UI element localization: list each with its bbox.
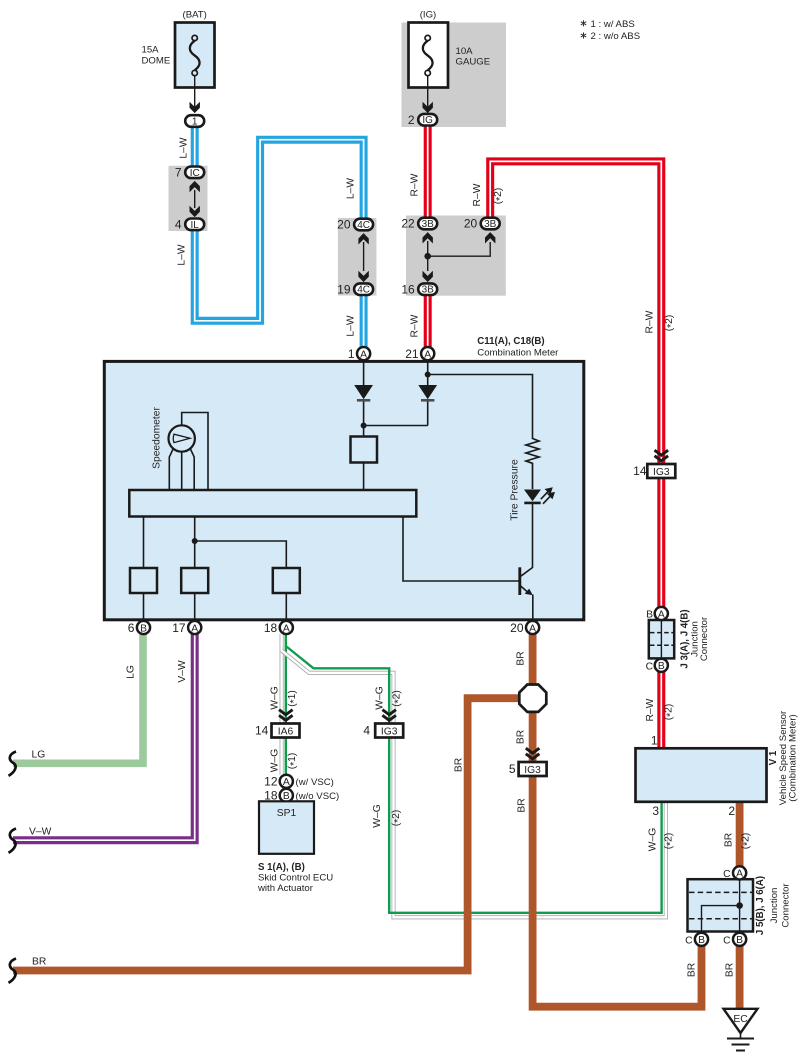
svg-text:V–W: V–W: [177, 660, 188, 683]
arrow into oval 1: [190, 102, 200, 113]
svg-text:J 5(B), J 6(A): J 5(B), J 6(A): [755, 876, 766, 935]
connector oval 19 4C: [354, 283, 373, 295]
svg-text:Speedometer: Speedometer: [152, 407, 163, 469]
svg-text:3: 3: [652, 804, 659, 818]
svg-text:4: 4: [175, 218, 182, 232]
svg-text:L–W: L–W: [346, 178, 357, 199]
resistor tire pressure: [526, 439, 539, 490]
square S3: [273, 568, 300, 593]
svg-text:B: B: [140, 623, 147, 634]
continuation squiggle BR: [9, 959, 17, 983]
transistor Q1: [520, 567, 533, 595]
svg-text:BR: BR: [724, 833, 735, 847]
wire V-W: meter pin 17A down and left to edge: [13, 634, 195, 840]
connector oval 22 3B: [418, 218, 437, 230]
svg-text:A: A: [529, 623, 536, 634]
svg-text:2 : w/o ABS: 2 : w/o ABS: [591, 31, 641, 42]
svg-text:10A: 10A: [456, 46, 474, 57]
svg-text:(w/ VSC): (w/ VSC): [296, 777, 334, 788]
wire: dot branch right to square S3: [195, 541, 287, 568]
junction connector J5 J6 box: [688, 879, 754, 931]
svg-text:Tire Pressure: Tire Pressure: [510, 459, 521, 521]
svg-text:W–G: W–G: [375, 686, 386, 709]
wire: bus bar through dot to square S2: [194, 517, 196, 569]
svg-text:20: 20: [464, 217, 478, 231]
connector box 14 IA6: [272, 724, 300, 738]
continuation squiggle LG: [9, 752, 17, 776]
fuse 10A GAUGE box: [409, 23, 449, 88]
wire: square S3 to pin 18A: [285, 593, 287, 620]
arrow into oval IG: [423, 102, 433, 113]
wire BR: 5 IG3 down, right, up to J5 pin B left: [533, 776, 702, 1007]
chevron arrow above 5 IG3: [526, 748, 540, 759]
svg-text:C11(A), C18(B): C11(A), C18(B): [477, 336, 544, 347]
gray panel around IG fuse: [402, 23, 507, 128]
arrow up below 20 4C: [358, 233, 368, 244]
svg-text:17: 17: [172, 621, 186, 635]
wire BR: V1 pin 2 down to J5 pin A: [736, 751, 744, 868]
pin circle 12 A: [280, 775, 293, 788]
continuation squiggle V-W: [9, 829, 17, 853]
wire: fuse DOME to oval 1: [194, 75, 196, 108]
J3 pin B A: [655, 607, 668, 620]
svg-text:C: C: [646, 662, 654, 673]
svg-text:20: 20: [510, 621, 524, 635]
svg-text:W–G: W–G: [372, 804, 383, 827]
svg-text:(Combination Meter): (Combination Meter): [788, 714, 799, 801]
wire 22 3B to dot: [427, 241, 429, 271]
svg-text:(BAT): (BAT): [183, 10, 207, 21]
J5 pin C A: [733, 866, 746, 879]
svg-text:(IG): (IG): [420, 10, 437, 21]
J3 pin C B: [655, 659, 668, 672]
svg-text:LG: LG: [126, 665, 137, 679]
wire: diode D1 to junction dot and small box: [363, 401, 365, 437]
wire R-W red: fuse oval IG to connector 22 3B: [424, 126, 432, 219]
svg-text:L–W: L–W: [179, 137, 190, 158]
svg-text:3B: 3B: [422, 285, 435, 296]
svg-text:6: 6: [128, 621, 135, 635]
svg-text:1: 1: [348, 347, 355, 361]
svg-text:R–W: R–W: [410, 173, 421, 196]
svg-text:Connector: Connector: [699, 616, 710, 661]
skid control ECU box SP1: [259, 801, 314, 854]
svg-text:Junction: Junction: [769, 888, 780, 924]
svg-text:V–W: V–W: [29, 827, 52, 838]
svg-text:A: A: [736, 869, 743, 880]
svg-text:W–G: W–G: [648, 828, 659, 851]
placeholder layers: [169, 23, 507, 296]
svg-text:4: 4: [363, 724, 370, 738]
wire: small box to bus bar: [363, 463, 365, 491]
wire L-W blue: connector IL down, right, up, right, down to 20 4C: [195, 140, 364, 321]
svg-text:18: 18: [264, 621, 278, 635]
svg-text:R–W: R–W: [645, 310, 656, 333]
svg-text:S 1(A), (B): S 1(A), (B): [258, 862, 305, 873]
svg-text:GAUGE: GAUGE: [456, 57, 491, 68]
svg-text:BR: BR: [725, 963, 736, 977]
junction dot bus to squares: [192, 538, 198, 544]
svg-text:B: B: [736, 935, 743, 946]
octagon junction symbol: [519, 685, 546, 712]
gray panel 4C connector group: [338, 218, 377, 296]
arrow down above 16 3B: [423, 271, 433, 282]
svg-text:IG3: IG3: [524, 765, 541, 776]
chevron arrow above 14 IA6: [279, 710, 293, 721]
svg-text:BR: BR: [687, 963, 698, 977]
connector oval 7 IC: [185, 167, 204, 179]
combination meter box C11(A) C18(B): [104, 361, 584, 619]
wire W-G green line: branch 2 diagonal right down to 4 IG3, down right up to V1 pin 3: [286, 646, 662, 913]
svg-text:A: A: [191, 623, 198, 634]
svg-text:7: 7: [175, 166, 182, 180]
svg-text:BR: BR: [516, 651, 527, 665]
svg-text:20: 20: [337, 218, 351, 232]
wire BR: J5 pin B right down to EC ground: [736, 945, 744, 1010]
svg-text:DOME: DOME: [142, 56, 171, 67]
svg-text:21: 21: [405, 347, 419, 361]
svg-text:19: 19: [337, 282, 351, 296]
svg-text:IC: IC: [190, 168, 200, 179]
svg-text:A: A: [283, 623, 290, 634]
wire: pin 21A to diode D2: [427, 362, 429, 385]
svg-text:BR: BR: [32, 957, 46, 968]
J5 pin C B right: [733, 933, 746, 946]
svg-text:C: C: [723, 869, 731, 880]
svg-text:L–W: L–W: [177, 244, 188, 265]
connector oval 16 3B: [418, 283, 437, 295]
chevron arrow above 14 IG3 red: [655, 450, 669, 461]
wire: pin 1A to diode D1: [363, 362, 365, 385]
meter pin 21 A: [421, 347, 434, 360]
square S2: [181, 568, 208, 593]
svg-text:BR: BR: [516, 730, 527, 744]
arrow down above IL: [190, 206, 200, 217]
svg-text:15A: 15A: [142, 45, 160, 56]
diode D2: [418, 385, 437, 400]
svg-text:3B: 3B: [422, 219, 435, 230]
svg-text:5: 5: [509, 762, 516, 776]
svg-text:Connector: Connector: [781, 883, 792, 928]
wire 4C to 4C: [363, 242, 365, 271]
EC ground symbol: [724, 1009, 758, 1051]
svg-text:W–G: W–G: [270, 749, 281, 772]
connector oval 20 3B: [481, 218, 500, 230]
wire LG: meter pin 6B down and left to edge: [13, 634, 143, 763]
wire: speedometer loop top right: [182, 413, 208, 491]
svg-text:1: 1: [651, 733, 658, 747]
gray panel IC/IL connector group: [169, 166, 208, 231]
svg-text:C: C: [723, 935, 731, 946]
note star 1 w/ ABS: [581, 20, 586, 26]
svg-text:IG3: IG3: [381, 727, 398, 738]
svg-text:L–W: L–W: [346, 315, 357, 336]
arrow up below 22 3B: [423, 232, 433, 243]
speedometer gauge symbol: [169, 425, 195, 451]
wire BR: octagon junction down to 5 IG3: [529, 712, 537, 763]
wire BR: octagon junction left, down, left to edge: [13, 698, 519, 970]
svg-text:(w/o VSC): (w/o VSC): [296, 791, 340, 802]
svg-text:14: 14: [633, 464, 647, 478]
wire W-G green line: pin 18A branch 1 down to 14 IA6 and 12A: [285, 634, 287, 776]
wire: speedometer right lead to bus bar: [190, 449, 194, 491]
svg-text:EC: EC: [733, 1014, 748, 1025]
vehicle speed sensor box V1: [636, 748, 767, 802]
wire: pin 21A branch right to tire pressure resistor: [428, 375, 533, 440]
arrow up below IC: [190, 181, 200, 192]
fuse 15A DOME symbol: [190, 35, 200, 75]
wire: square S1 to pin 6B: [143, 593, 145, 620]
svg-text:2: 2: [728, 804, 735, 818]
small box component above bus bar: [351, 437, 378, 463]
wire dot right up to 20 3B: [428, 242, 491, 256]
svg-text:2: 2: [408, 113, 415, 127]
svg-text:R–W: R–W: [645, 698, 656, 721]
pin circle 18 B: [280, 789, 293, 802]
connector oval 20 4C: [354, 219, 373, 231]
svg-text:LG: LG: [32, 750, 46, 761]
svg-text:A: A: [658, 609, 665, 620]
meter pin 1 A: [357, 347, 370, 360]
svg-text:22: 22: [401, 217, 415, 231]
wire: LED to transistor collector: [521, 503, 533, 576]
svg-text:12: 12: [264, 774, 278, 788]
fuse 15A DOME box: [175, 23, 215, 88]
meter pin 20 A: [526, 621, 539, 634]
diode D1: [354, 385, 373, 400]
arrow down above 19 4C: [358, 271, 368, 282]
meter pin 17 A: [188, 621, 201, 634]
connector oval 1: [185, 115, 204, 127]
svg-text:BR: BR: [454, 758, 465, 772]
wire W-G white line: pin 18A branch 1 down to 14 IA6: [280, 634, 284, 775]
svg-text:BR: BR: [517, 798, 528, 812]
connector oval IG: [418, 114, 437, 126]
J5 pin C B left: [695, 933, 708, 946]
square S1: [130, 568, 157, 593]
wire: speedometer centre lead to bus bar: [181, 452, 183, 490]
fuse 10A GAUGE symbol: [423, 35, 433, 75]
wire L-W blue: fuse oval 1 to connector IC: [191, 126, 199, 167]
chevron arrow above 4 IG3: [382, 710, 396, 721]
wire W-G white line: branch 2 diagonal right down to 4 IG3: [282, 651, 666, 918]
svg-text:14: 14: [255, 724, 269, 738]
wire R-W red: connector 16 3B to meter pin 21A: [424, 295, 432, 348]
LED tire pressure: [524, 487, 555, 504]
arrow up below 20 3B: [485, 232, 495, 243]
svg-text:4C: 4C: [357, 285, 370, 296]
wire BR: meter pin 20A to octagon junction: [529, 634, 537, 685]
meter pin 6 B: [137, 621, 150, 634]
wire R-W red: connector 20 3B up, right, down to 14 IG3: [490, 161, 661, 463]
svg-text:1 : w/ ABS: 1 : w/ ABS: [591, 19, 635, 30]
connector box 5 IG3: [519, 762, 547, 776]
svg-text:A: A: [360, 349, 367, 360]
svg-text:Combination Meter: Combination Meter: [477, 347, 559, 358]
wire: fuse GAUGE to oval IG: [427, 75, 429, 108]
wire: diode D2 down to horizontal joining wire: [364, 401, 428, 426]
gray panel 3B connector group: [406, 216, 506, 296]
wire: transistor emitter to pin 20A: [532, 595, 534, 621]
note star 2 w/o ABS: [581, 32, 586, 38]
junction connector J3 J4 box: [649, 620, 674, 658]
svg-text:A: A: [283, 777, 290, 788]
svg-text:IL: IL: [191, 220, 200, 231]
svg-text:4C: 4C: [357, 220, 370, 231]
junction dot 3B: [424, 253, 431, 260]
svg-text:W–G: W–G: [270, 686, 281, 709]
junction dot 21A branch: [425, 372, 431, 378]
svg-text:IA6: IA6: [278, 727, 294, 738]
svg-text:A: A: [424, 349, 431, 360]
svg-text:B: B: [646, 610, 653, 621]
bus bar: [129, 490, 416, 517]
wire: speedometer left lead to bus bar: [169, 449, 173, 491]
svg-text:R–W: R–W: [410, 314, 421, 337]
svg-text:3B: 3B: [484, 219, 497, 230]
wire: bus bar right down to transistor base: [403, 517, 520, 582]
svg-text:18: 18: [264, 788, 278, 802]
svg-text:16: 16: [401, 282, 415, 296]
wire R-W red: 14 IG3 to junction connector J3 pin A: [657, 479, 665, 609]
svg-text:B: B: [658, 661, 665, 672]
wire L-W blue: connector 19 4C to meter pin 1A: [360, 295, 368, 348]
svg-text:IG3: IG3: [653, 467, 670, 478]
junction dot diode join: [361, 423, 367, 429]
wire: square S2 to pin 17A: [194, 593, 196, 620]
wire: bus bar to square S1: [143, 517, 145, 569]
wire R-W red: junction connector J3 pin B to V1 pin 1: [657, 671, 665, 749]
connector box 4 IG3: [375, 724, 403, 738]
svg-text:SP1: SP1: [277, 808, 297, 819]
svg-text:R–W: R–W: [472, 183, 483, 206]
svg-text:1: 1: [192, 116, 198, 127]
wire IC to IL: [194, 190, 196, 208]
svg-text:C: C: [685, 935, 693, 946]
svg-text:B: B: [698, 935, 705, 946]
svg-text:with Actuator: with Actuator: [257, 883, 314, 894]
connector box 14 IG3: [647, 464, 675, 478]
svg-text:IG: IG: [422, 115, 433, 126]
connector oval 4 IL: [185, 219, 204, 231]
meter pin 18 A: [280, 621, 293, 634]
